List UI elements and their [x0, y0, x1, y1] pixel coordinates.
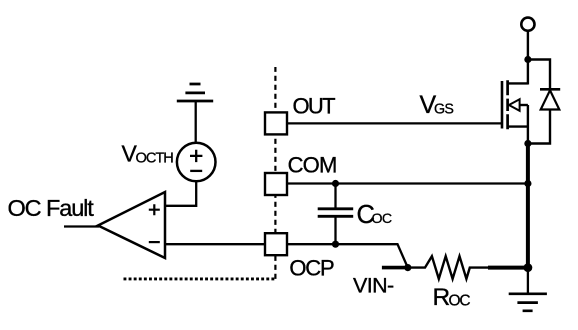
svg-text:VIN-: VIN- — [353, 273, 394, 297]
dotted IC boundary bottom — [124, 277, 277, 280]
comparator - marker — [149, 241, 160, 243]
pin OUT — [265, 112, 287, 134]
svg-text:OC: OC — [372, 211, 392, 227]
body/source vertical — [527, 105, 529, 144]
junction dot VIN node — [404, 264, 411, 271]
drain connect — [507, 82, 528, 84]
wire comparator output — [64, 225, 99, 227]
comparator + marker — [149, 204, 160, 215]
voltage source VOCTH — [177, 143, 216, 182]
svg-text:COM: COM — [288, 153, 337, 178]
junction dot drain — [524, 56, 531, 63]
wire source down (thick) — [526, 144, 530, 268]
junction dot source — [524, 140, 531, 147]
wire VIN- stub — [382, 266, 408, 270]
junction dot COM node — [524, 180, 531, 187]
wire OCP to VIN- node — [286, 244, 408, 267]
resistor ROC — [408, 256, 490, 279]
svg-text:OC Fault: OC Fault — [8, 195, 95, 221]
wire + input to source — [165, 182, 196, 206]
ground (inverted, above VOCTH) — [177, 84, 213, 101]
wire to ground — [527, 268, 529, 294]
svg-text:OCTH: OCTH — [136, 150, 174, 166]
gate bar — [501, 81, 504, 129]
ground (bottom right) — [509, 294, 547, 311]
terminal circle (drain) — [521, 18, 534, 31]
wire OUT to gate — [286, 122, 502, 124]
wire resistor to ground node (thick) — [488, 266, 528, 270]
wire terminal to drain node — [527, 31, 529, 60]
capacitor COC — [334, 184, 336, 209]
dashed IC boundary vertical — [274, 67, 276, 279]
wire drain vertical — [527, 60, 529, 85]
pin OCP — [265, 233, 287, 255]
svg-text:OCP: OCP — [289, 256, 334, 281]
junction dot cap bottom — [332, 241, 339, 248]
diode cathode bar — [540, 88, 560, 91]
op-amp comparator U1 — [98, 192, 165, 258]
pin COM — [265, 173, 287, 195]
channel segments — [506, 80, 509, 129]
svg-text:OC: OC — [449, 292, 471, 309]
source connect — [507, 125, 528, 127]
body arrow — [517, 104, 528, 106]
svg-text:OUT: OUT — [293, 94, 336, 119]
wire COM to drain-source node — [286, 182, 528, 184]
svg-text:GS: GS — [434, 102, 453, 118]
wire - input to OCP pin — [165, 243, 266, 245]
wire source to ground — [195, 101, 197, 143]
diode triangle — [541, 90, 560, 109]
junction dot cap top — [332, 180, 339, 187]
body diode D1 branch — [528, 60, 550, 144]
junction dot ground node — [524, 263, 533, 272]
